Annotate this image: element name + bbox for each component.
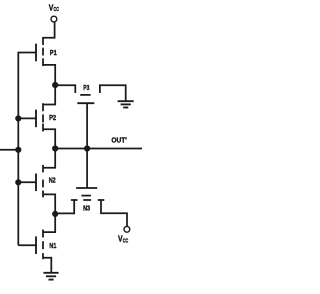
svg-text:N3: N3	[83, 203, 90, 212]
P3 channel dash	[80, 94, 90, 96]
svg-text:N1: N1	[49, 241, 57, 250]
wire N2 source down to node B	[43, 194, 55, 214]
wire P1 drain down to node A	[43, 65, 55, 85]
transistor P1	[18, 37, 43, 66]
wire VCC top to P1 source	[43, 22, 55, 37]
wire node A to P3 source	[55, 84, 75, 86]
node OUT' junction dot right	[84, 145, 90, 151]
P2 drain stub	[42, 124, 44, 132]
transistor P3 (horizontal, gate below)	[75, 84, 100, 148]
N2 gate lead	[18, 181, 36, 183]
svg-text:N2: N2	[49, 176, 56, 185]
P2 gate lead	[18, 117, 36, 119]
node B junction dot	[52, 211, 58, 217]
node OUT' junction dot left	[52, 145, 58, 151]
wire node A to P2 source	[43, 85, 55, 105]
node A junction dot	[52, 82, 58, 88]
N1 gate bar	[35, 236, 37, 254]
N3 drain contact bar	[98, 199, 105, 201]
P2 source stub	[42, 103, 44, 111]
wire OUT' down to N2 drain	[43, 149, 55, 168]
P3 source stub	[74, 84, 76, 93]
junction dot bus x input	[15, 147, 21, 153]
wire N1 source to ground	[43, 258, 51, 273]
transistor N3 (horizontal, gate above)	[71, 149, 104, 215]
wire input line from left edge	[0, 149, 18, 151]
svg-text:CC: CC	[54, 7, 59, 13]
ground (bottom, below N1)	[43, 273, 58, 280]
P1 channel dash	[42, 48, 44, 56]
P2 gate bar	[35, 110, 37, 128]
N2 channel dash	[42, 180, 44, 188]
P1 drain stub	[42, 58, 44, 66]
P1 gate bar	[35, 44, 37, 62]
N1 drain stub	[42, 230, 44, 238]
svg-text:OUT′: OUT′	[111, 136, 127, 145]
P2 channel dash	[42, 114, 44, 122]
terminal VCC bottom (open circle)	[124, 226, 130, 232]
N3 channel dash	[81, 195, 91, 197]
N1 source stub	[42, 253, 44, 259]
N3 source stub	[73, 200, 75, 214]
transistor N2	[18, 165, 43, 198]
N2 gate bar	[35, 174, 37, 192]
transistor N1	[18, 230, 43, 260]
wire P2 drain down to OUT' line	[43, 129, 55, 148]
P1 gate lead	[18, 52, 36, 54]
ground (right of P3)	[118, 101, 134, 107]
wire P3 drain to ground	[100, 85, 126, 101]
svg-text:CC: CC	[123, 238, 128, 244]
svg-text:P3: P3	[83, 83, 89, 92]
transistor P2	[18, 103, 43, 131]
svg-text:P2: P2	[49, 113, 56, 122]
N1 channel dash	[42, 241, 44, 249]
P3 gate lead down to OUT'	[86, 103, 88, 148]
node VCC top label	[49, 3, 59, 13]
svg-text:P1: P1	[50, 48, 57, 57]
wire node B to N3 source	[55, 212, 74, 214]
junction dot bus x N2 gate	[15, 179, 21, 185]
N2 drain stub	[42, 165, 44, 173]
N3 gate bar	[76, 187, 97, 189]
node VCC bottom label	[118, 234, 128, 245]
N2 source stub	[42, 191, 44, 198]
N3 gate lead from OUT' down	[86, 149, 88, 189]
wire N3 drain to VCC bottom	[101, 213, 127, 226]
wire OUT' horizontal line	[55, 148, 142, 150]
wire node B down to N1 drain	[43, 214, 55, 232]
P3 gate bar	[77, 102, 94, 104]
junction dot bus x P2 gate	[15, 115, 21, 121]
N3 source contact bar	[71, 199, 78, 201]
wire left bus vertical	[17, 52, 19, 246]
P3 drain stub	[99, 84, 101, 93]
P1 source stub	[42, 37, 44, 45]
N1 gate lead	[18, 244, 36, 246]
N3 drain stub	[100, 200, 102, 214]
N3 channel middle bar	[83, 199, 91, 201]
terminal VCC top (open circle)	[51, 16, 57, 22]
